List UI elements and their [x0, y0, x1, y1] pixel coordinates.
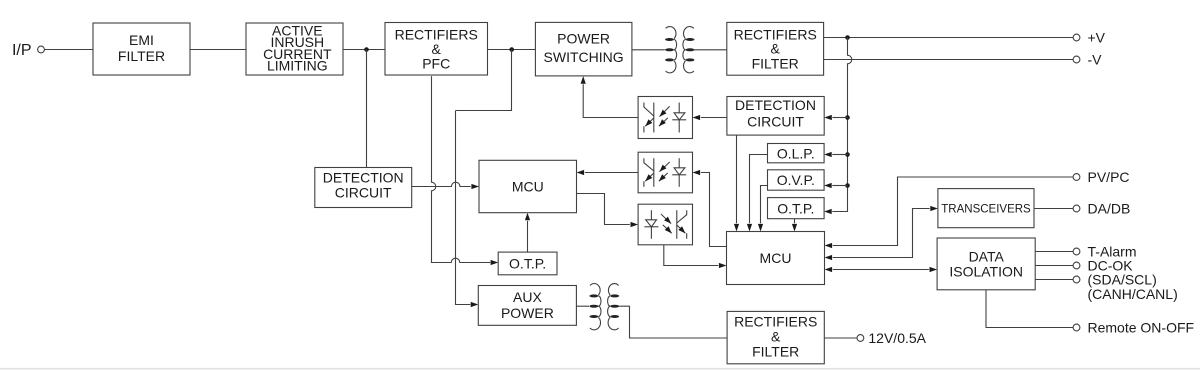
svg-text:-V: -V: [1088, 52, 1103, 68]
wire DETECTION CIRCUIT (secondary) to optocoupler U3: [701, 117, 727, 119]
optocoupler U3 (power switching feedback): [638, 97, 692, 139]
wire sense bus to O.V.P.: [832, 185, 847, 187]
block RECTIFIERS & PFC: [385, 23, 488, 76]
svg-text:Remote ON-OFF: Remote ON-OFF: [1088, 320, 1195, 336]
svg-text:O.T.P.: O.T.P.: [777, 200, 814, 216]
svg-text:12V/0.5A: 12V/0.5A: [868, 330, 926, 346]
wire DATA ISOLATION to SDA/SCL terminal: [1035, 279, 1073, 281]
block AUX POWER: [478, 286, 576, 326]
block O.T.P. (primary): [498, 252, 557, 275]
svg-text:ACTIVEINRUSHCURRENTLIMITING: ACTIVEINRUSHCURRENTLIMITING: [263, 23, 332, 74]
svg-text:O.L.P.: O.L.P.: [777, 145, 815, 161]
wire transformer T2 to RECTIFIERS & FILTER (aux): [619, 306, 727, 338]
wire aux feed rail down to AUX POWER: [456, 111, 471, 305]
node D (sense tap to DETECTION CIRCUIT): [845, 115, 850, 120]
wire MCU (secondary) to DATA ISOLATION: [833, 269, 929, 271]
svg-text:+V: +V: [1088, 30, 1106, 46]
svg-text:MCU: MCU: [512, 179, 544, 195]
block RECTIFIERS & FILTER (aux output): [727, 311, 824, 363]
wire node A down to DETECTION CIRCUIT (primary): [366, 50, 368, 168]
wire DATA ISOLATION to DC-OK terminal: [1035, 265, 1073, 267]
wire O.T.P. (primary) to MCU (primary): [527, 221, 529, 252]
wire O.V.P. to MCU (secondary): [761, 186, 768, 224]
block O.T.P. (secondary): [768, 198, 825, 219]
svg-text:DA/DB: DA/DB: [1088, 201, 1131, 217]
block DATA ISOLATION: [937, 238, 1035, 290]
wire RECTIFIERS & PFC to POWER SWITCHING: [488, 49, 536, 51]
wire node B jog to aux feed rail: [456, 50, 512, 111]
wire ACTIVE INRUSH to RECTIFIERS & PFC: [343, 49, 385, 51]
wire EMI FILTER to ACTIVE INRUSH: [190, 49, 246, 51]
svg-text:DETECTIONCIRCUIT: DETECTIONCIRCUIT: [735, 97, 816, 129]
terminal T-Alarm: [1073, 248, 1080, 255]
terminal -V: [1073, 56, 1080, 63]
wire optocoupler U5 to MCU (secondary): [664, 245, 718, 266]
wire O.T.P. (secondary) to MCU (secondary): [794, 219, 796, 224]
terminal DC-OK: [1073, 262, 1080, 269]
wire AUX POWER to transformer T2: [576, 305, 589, 307]
block RECTIFIERS & FILTER (main output): [727, 22, 824, 75]
svg-text:O.T.P.: O.T.P.: [509, 256, 546, 272]
svg-text:O.V.P.: O.V.P.: [777, 172, 815, 188]
wire RECTIFIERS & PFC down to O.T.P. (primary): [432, 76, 491, 262]
wire TRANSCEIVERS to DA/DB terminal: [1034, 208, 1073, 210]
svg-text:TRANSCEIVERS: TRANSCEIVERS: [941, 203, 1031, 215]
optocoupler U5 (primary to secondary MCU): [638, 204, 692, 245]
wire O.L.P. to MCU (secondary): [750, 155, 768, 224]
wire DATA ISOLATION to T-Alarm terminal: [1035, 251, 1073, 253]
block O.L.P.: [768, 144, 825, 163]
wire PV/PC to MCU (secondary): [833, 177, 1073, 246]
block MCU (secondary) U2: [727, 232, 825, 285]
terminal PV/PC: [1073, 174, 1080, 181]
node C (+V sense tap): [845, 35, 850, 40]
terminal Remote ON-OFF: [1073, 324, 1080, 331]
optocoupler U4 (secondary to primary MCU): [638, 152, 692, 193]
transformer T1 primary winding: [665, 38, 674, 41]
transformer T2 primary winding: [589, 294, 598, 297]
svg-text:MCU: MCU: [760, 250, 792, 266]
block O.V.P.: [768, 170, 825, 190]
block ACTIVE INRUSH CURRENT LIMITING: [246, 23, 343, 75]
block EMI FILTER: [93, 23, 190, 75]
block POWER SWITCHING: [535, 22, 632, 76]
wire transformer T1 to RECTIFIERS & FILTER: [694, 49, 727, 51]
block TRANSCEIVERS: [938, 189, 1034, 228]
wire POWER SWITCHING to transformer T1: [632, 49, 665, 51]
svg-text:DETECTIONCIRCUIT: DETECTIONCIRCUIT: [323, 170, 404, 201]
node A (AC bus tap): [364, 47, 369, 52]
node E (sense tap to O.L.P.): [845, 152, 850, 157]
wire MCU (secondary) to optocoupler U4: [701, 173, 727, 247]
wire sense bus to DETECTION CIRCUIT (secondary): [832, 117, 847, 119]
terminal +V: [1073, 34, 1080, 41]
svg-text:I/P: I/P: [12, 42, 32, 59]
terminal DA/DB: [1073, 205, 1080, 212]
wire DETECTION CIRCUIT (secondary) to MCU (secondary): [736, 135, 738, 223]
terminal 12V/0.5A: [857, 335, 864, 342]
wire optocoupler U3 to POWER SWITCHING: [583, 84, 638, 117]
block DETECTION CIRCUIT (secondary): [727, 97, 824, 136]
wire MCU (primary) to optocoupler U5: [577, 194, 630, 225]
wire MCU (secondary) to TRANSCEIVERS: [833, 209, 930, 258]
svg-text:PV/PC: PV/PC: [1088, 169, 1130, 185]
node B (PFC bus tap): [509, 47, 514, 52]
block DETECTION CIRCUIT (primary): [315, 168, 412, 208]
svg-text:(SDA/SCL)(CANH/CANL): (SDA/SCL)(CANH/CANL): [1088, 272, 1178, 303]
block MCU (primary) U1: [479, 160, 577, 212]
wire RECTIFIERS & FILTER (aux) to 12V terminal: [824, 337, 857, 339]
wire DATA ISOLATION to Remote ON-OFF terminal: [986, 290, 1073, 328]
wire DETECTION CIRCUIT (primary) to MCU (primary): [412, 182, 471, 186]
wire +V rail: [824, 37, 1073, 39]
wire sense bus to O.L.P.: [832, 154, 847, 156]
transformer T2 secondary winding: [610, 294, 619, 297]
wire sense bus down (hops -V rail): [832, 38, 852, 212]
node F (sense tap to O.V.P.): [845, 183, 850, 188]
bottom table border: [0, 368, 1200, 370]
terminal I/P: [38, 46, 45, 53]
wire -V rail: [824, 59, 1073, 61]
wire I/P to EMI FILTER: [44, 49, 93, 51]
wire optocoupler U4 to MCU (primary): [585, 172, 638, 174]
transformer T1 secondary winding: [686, 38, 695, 41]
terminal (SDA/SCL) (CANH/CANL): [1073, 276, 1080, 283]
